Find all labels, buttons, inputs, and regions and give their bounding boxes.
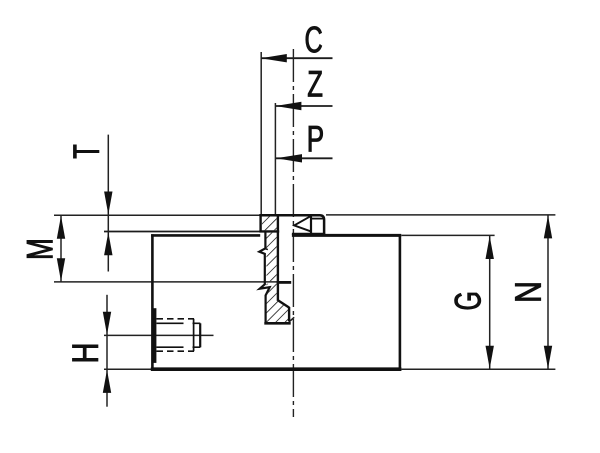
dimension line T [107, 135, 109, 272]
boot hatch [267, 284, 289, 323]
bushing column left edge with break zigzags [259, 232, 269, 323]
label T [73, 145, 98, 158]
flange ring hatch [262, 216, 277, 230]
arrow H upper [103, 312, 111, 335]
extension line Z/P vertical [274, 103, 276, 214]
dimension line P [276, 157, 333, 159]
extension line M bottom (thread depth) [54, 281, 278, 283]
extension line flange-top left [54, 214, 260, 216]
side hole inner bottom line [157, 346, 201, 348]
body top edge left segment [151, 234, 260, 237]
centerline vertical axis [292, 49, 294, 417]
thread bottom line [277, 281, 292, 284]
dimension line N [547, 215, 549, 369]
label H [72, 345, 97, 361]
boot bottom edge [264, 322, 290, 325]
extension line H top / side-hole centerline [104, 334, 214, 336]
body right edge [399, 234, 402, 371]
label G [455, 293, 481, 309]
side hole hidden thread bottom [157, 350, 195, 352]
flange left edge [259, 214, 261, 232]
dimension line Z [275, 105, 332, 107]
arrow N top [544, 215, 552, 238]
dimension line G [489, 235, 491, 369]
arrow H lower [103, 370, 111, 393]
side hole end vertical [193, 319, 195, 351]
flange top edge with rounded right corner and right edge [259, 215, 324, 235]
label Z [308, 71, 322, 96]
flange ring bottom (left sectioned part) [259, 230, 279, 232]
body bottom edge [151, 367, 402, 371]
extension line flange-top right (N top) [326, 214, 555, 216]
body top edge right segment [292, 234, 401, 237]
body left edge [151, 234, 154, 371]
extension line C vertical [260, 52, 262, 214]
arrow M lower [57, 258, 65, 281]
dimension line M [60, 215, 62, 282]
arrow T upper [104, 192, 112, 215]
dimension line C [261, 57, 333, 59]
extension line flange-bottom stub (T lower) [104, 231, 260, 233]
arrow T lower [104, 232, 112, 255]
countersink cone lines [294, 216, 310, 231]
side hole mouth bar [153, 308, 156, 363]
thread hole left wall [277, 216, 279, 301]
label N [515, 284, 540, 301]
arrow C [261, 54, 287, 62]
arrow G top [486, 236, 494, 259]
arrow M upper [57, 216, 65, 239]
corner hatch stripe [289, 317, 295, 322]
side hole hidden thread top [157, 318, 195, 320]
flange right-part inner top line [312, 218, 324, 220]
dimension line H [106, 295, 108, 407]
extension line G top [402, 234, 495, 236]
extension line G/N bottom [402, 368, 556, 370]
arrow P [276, 154, 302, 162]
pilot hole wall [288, 307, 290, 321]
break zigzag spur [265, 249, 268, 250]
column hatch [267, 233, 277, 282]
side hole bracket right vertical [199, 323, 201, 347]
label P [309, 126, 323, 151]
label C [306, 26, 322, 52]
label M [27, 240, 52, 257]
side hole inner top line [157, 322, 201, 324]
flange right-part inner wall [310, 216, 312, 235]
arrow N bottom [544, 346, 552, 369]
extension line H bottom [104, 368, 152, 370]
flange bottom right segment [292, 233, 325, 235]
arrow Z [275, 102, 301, 110]
hole chamfer [278, 300, 289, 307]
arrow G bottom [486, 346, 494, 369]
